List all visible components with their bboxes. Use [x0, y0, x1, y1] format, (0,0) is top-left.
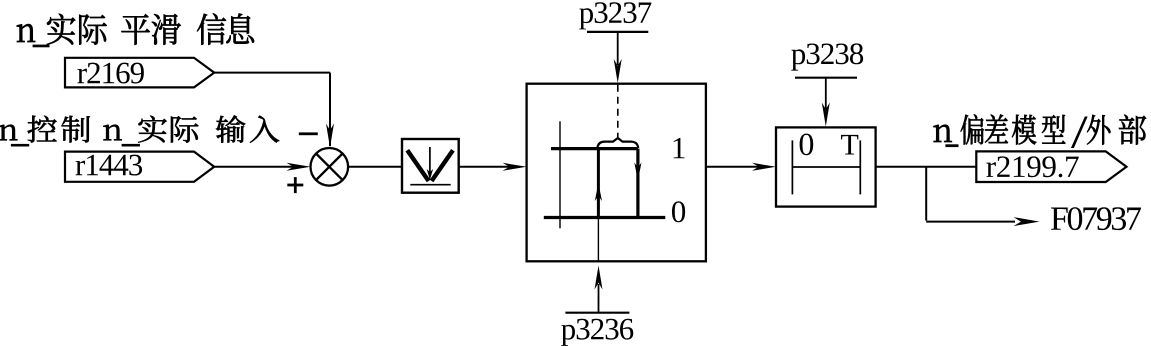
parameter label p3236 — [561, 319, 633, 346]
hysteresis band bracket — [597, 138, 638, 148]
bar under p3238 — [795, 77, 857, 79]
arrowhead into summing junction left — [287, 163, 311, 171]
wire from r1443 — [213, 166, 296, 168]
vertical axis line — [559, 121, 561, 228]
wire p3236 up — [598, 284, 600, 313]
wire to absolute-value block — [348, 166, 402, 168]
label r2199.7 — [986, 156, 1078, 177]
label r1443 — [76, 155, 142, 176]
arrowhead into summing junction top — [326, 124, 334, 148]
parameter label p3238 — [791, 43, 863, 70]
fault label F07937 — [1051, 207, 1141, 230]
wire to hysteresis block — [459, 166, 512, 168]
label r2169 — [77, 63, 143, 84]
underscore of n_ in output label — [945, 144, 958, 147]
dashed line from p3237 — [617, 85, 619, 137]
arrowhead into hysteresis block — [503, 163, 527, 171]
input connector r2169 — [65, 58, 214, 88]
down arrow on falling threshold — [634, 163, 641, 181]
lower level line — [544, 216, 666, 219]
arrowhead p3238 into timer — [822, 103, 830, 127]
on-delay timer block — [776, 127, 876, 206]
line below lower level — [597, 218, 599, 262]
branch wire down — [925, 167, 927, 221]
wire p3238 down — [825, 78, 827, 109]
label: n_actual smoothed message — [17, 13, 254, 44]
upper level line — [551, 147, 638, 150]
parameter label p3237 — [579, 2, 651, 29]
timer symbol 0 — [800, 134, 814, 156]
underscores of n_ in second label — [11, 144, 29, 147]
underscore of n_ in first label — [33, 45, 50, 48]
input connector r1443 — [65, 152, 214, 182]
wire down to summing junction — [329, 73, 331, 146]
timer symbol T — [841, 135, 858, 155]
up arrow on rising threshold — [595, 183, 602, 201]
rising threshold vertical — [597, 149, 600, 218]
output state 1 — [674, 138, 685, 158]
label: n_deviation model/external — [934, 114, 1147, 147]
output connector r2199.7 — [976, 151, 1126, 182]
arrowhead into timer block — [752, 163, 776, 171]
arrowhead p3237 into hysteresis block — [614, 59, 622, 83]
wire p3237 down — [617, 32, 619, 65]
hysteresis block — [527, 84, 706, 262]
output state 0 — [672, 201, 685, 222]
label: n_setpoint n_actual input — [0, 115, 279, 142]
arrowhead to F07937 — [1014, 217, 1040, 226]
wire to output connector — [876, 166, 977, 168]
bar over p3236 — [565, 312, 629, 314]
arrowhead p3236 into hysteresis block — [595, 266, 603, 290]
plus sign — [287, 184, 303, 187]
summing junction circle with X — [311, 148, 349, 186]
bar under p3237 — [587, 31, 648, 33]
minus sign — [299, 132, 318, 135]
falling threshold vertical — [636, 149, 639, 218]
absolute value block — [402, 139, 459, 193]
branch wire right — [926, 221, 1015, 223]
wire from r2169 — [213, 72, 330, 74]
wire to timer block — [706, 166, 761, 168]
